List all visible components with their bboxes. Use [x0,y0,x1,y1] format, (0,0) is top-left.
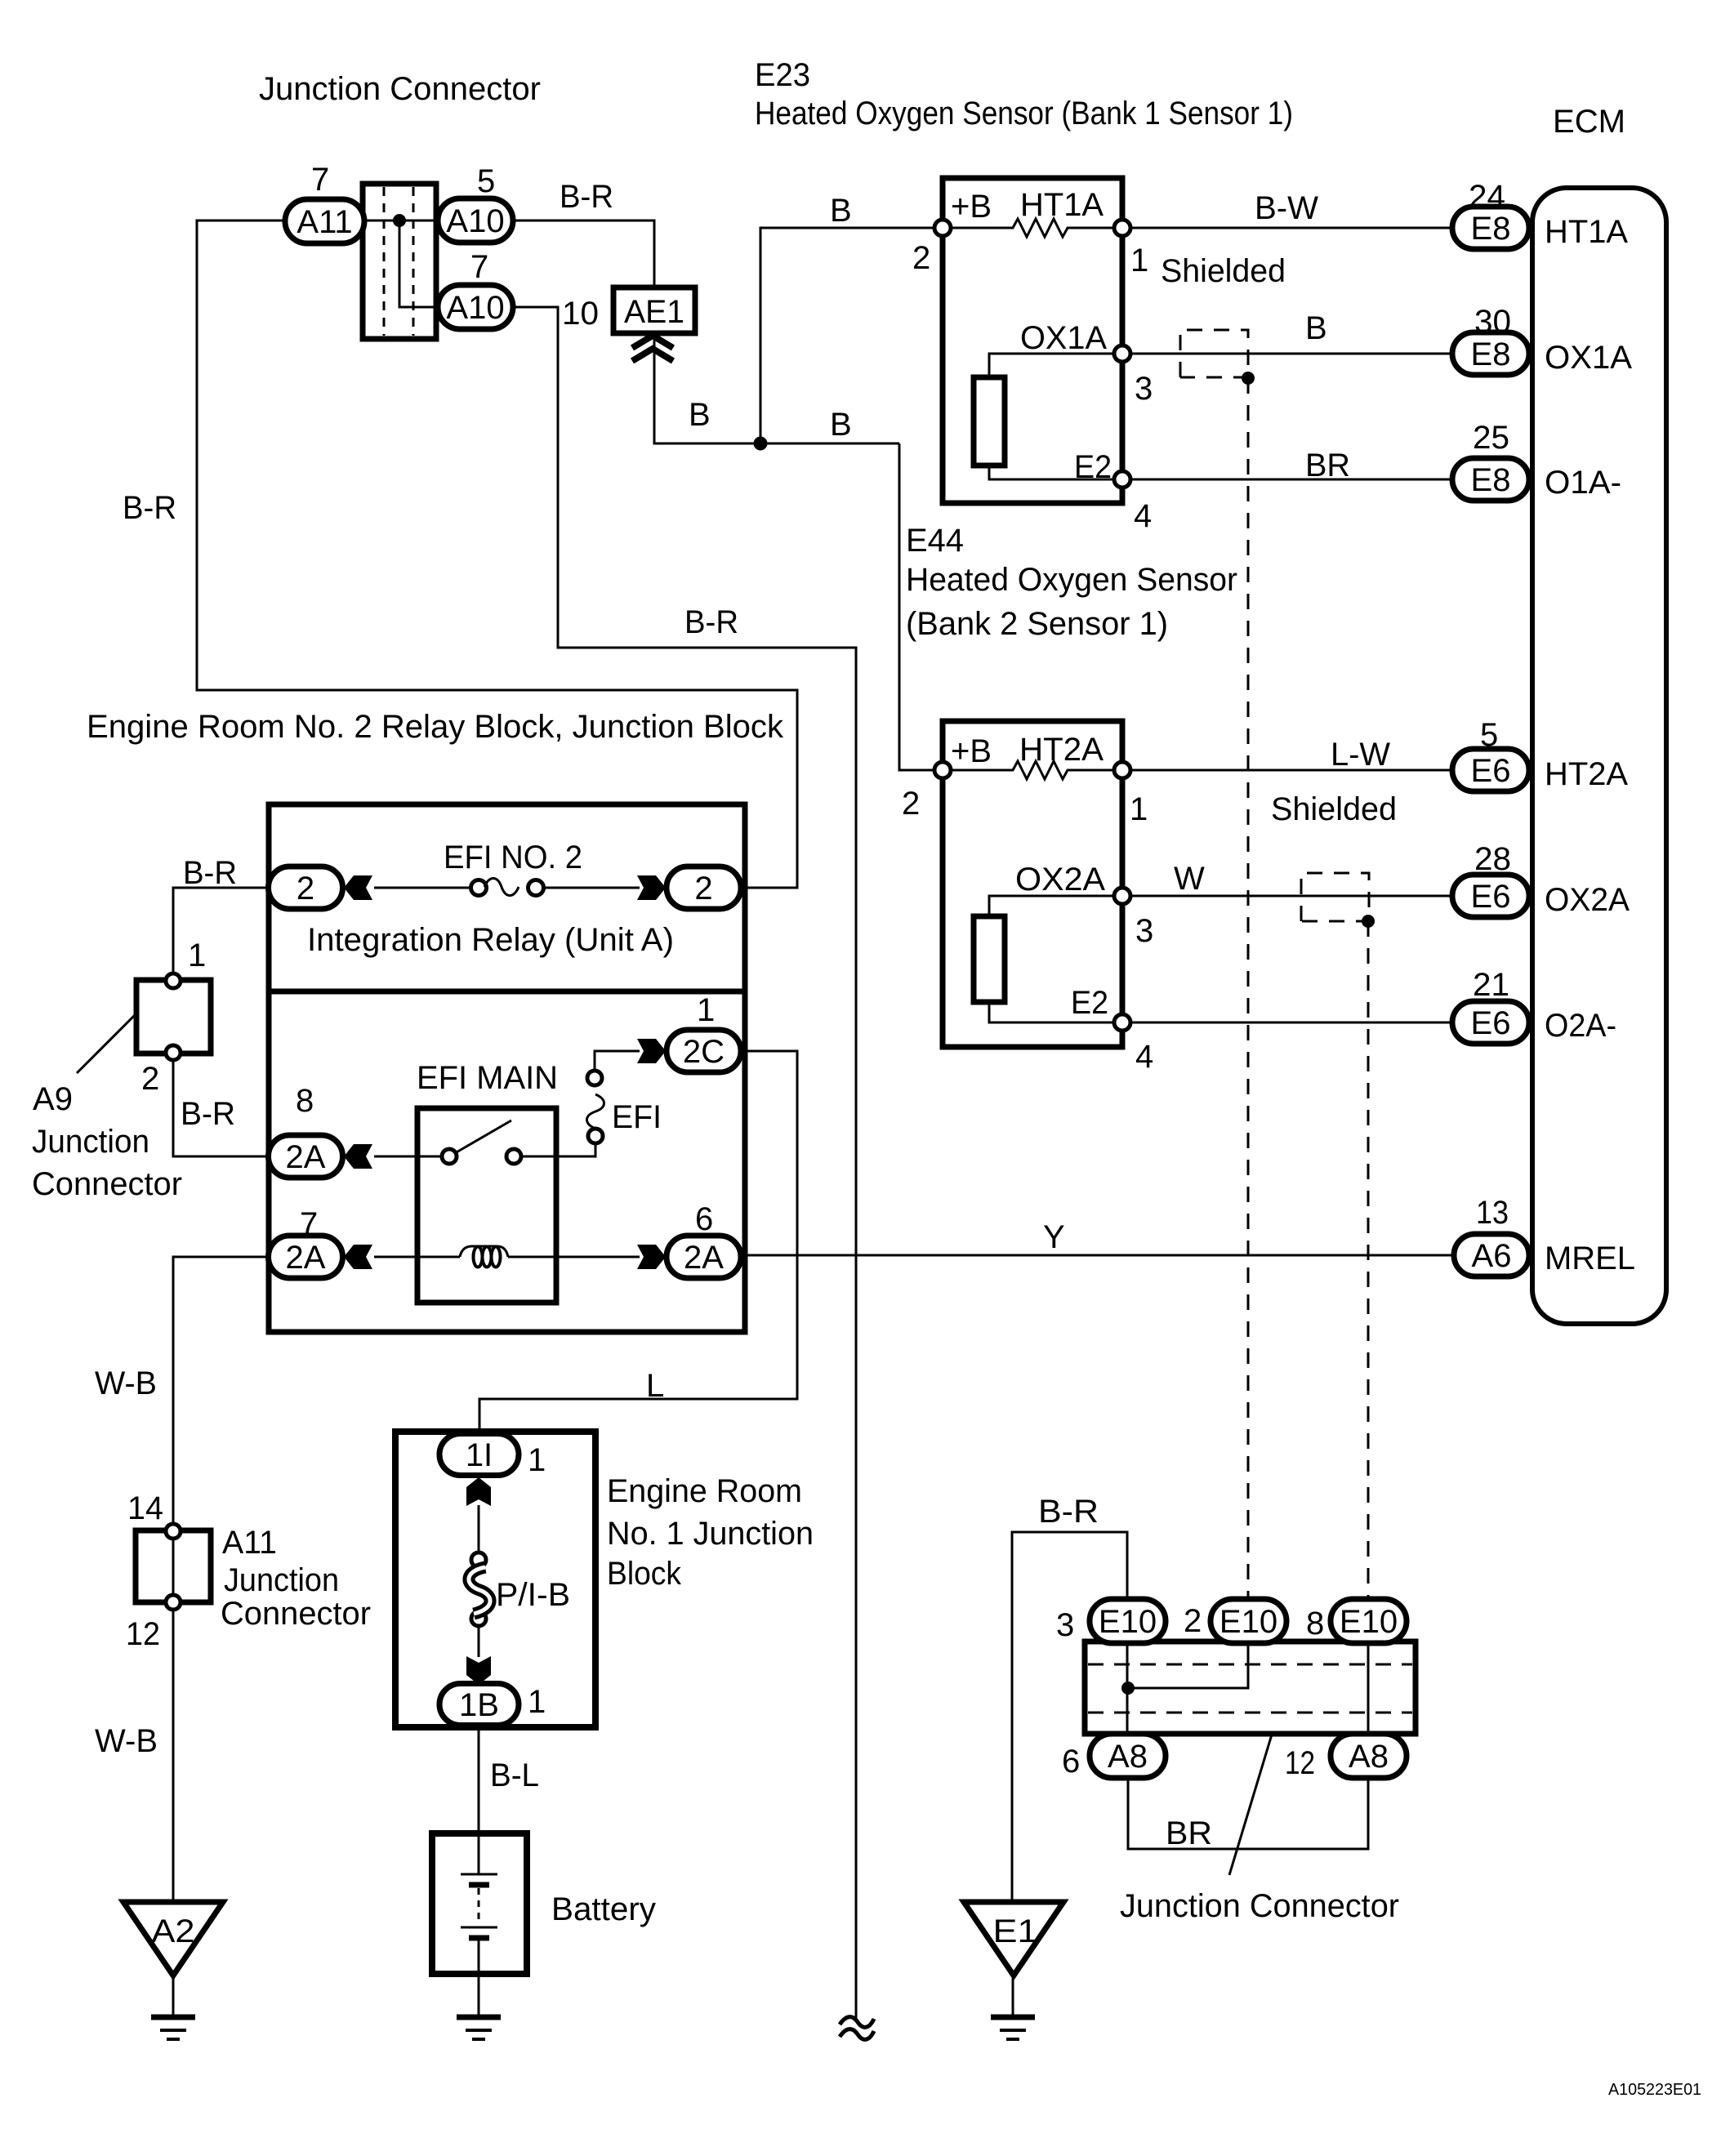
wire E10-8 to A8-12 [1367,1643,1370,1734]
svg-text:Y: Y [1043,1219,1065,1255]
svg-text:E44: E44 [906,523,964,559]
svg-text:OX2A: OX2A [1545,882,1630,918]
node dot shield bank1 [1242,372,1255,385]
ground symbol A2 [151,2015,195,2020]
svg-text:E8: E8 [1471,462,1511,498]
svg-text:EFI: EFI [612,1099,662,1135]
HOS bank2 sensor box E44 [943,721,1122,1047]
wire W OX2A row [1122,895,1456,898]
terminal A8 pin12 [1331,1734,1407,1778]
terminal E10 pin2 [1211,1599,1286,1643]
svg-text:EFI MAIN: EFI MAIN [417,1060,558,1096]
wire B down to HOS bank2 +B [899,443,943,770]
svg-text:Integration Relay (Unit A): Integration Relay (Unit A) [307,922,674,958]
arrow into relay 2 right [637,875,666,900]
svg-text:Heated Oxygen Sensor (Bank 1 S: Heated Oxygen Sensor (Bank 1 Sensor 1) [755,96,1293,131]
wire EFI fuse to 2C [595,1051,640,1071]
A9 pointer line [77,1015,135,1073]
svg-text:Engine Room No. 2 Relay Block,: Engine Room No. 2 Relay Block, Junction … [87,709,784,745]
svg-text:1: 1 [1130,791,1148,827]
svg-text:B-R: B-R [560,179,613,215]
terminal 2A pin7 [269,1236,343,1278]
svg-text:3: 3 [1135,371,1153,407]
terminal E6 21 O2A- [1452,1001,1529,1044]
wire B OX1A row [1122,353,1456,355]
svg-text:A10: A10 [446,203,504,239]
AE1 noise filter box [613,287,695,333]
terminal 2 right [667,866,741,909]
terminal 1B [439,1684,519,1726]
svg-text:E2: E2 [1074,449,1112,485]
pin 3 bank1 [1114,345,1130,362]
battery plates [478,1833,480,1873]
pin 1 bank1 [1114,220,1130,236]
arrow into 2A pin 6 [637,1245,666,1269]
wire B-W HT1A row [1122,227,1456,229]
wire B from AE1 shield to junction node [654,333,899,443]
wire B-R from junction connector A11 pin 7 left loop [197,220,797,888]
relay switch [442,1149,457,1164]
svg-text:A6: A6 [1472,1238,1512,1274]
fuse EFI vertical [587,1071,602,1085]
svg-text:2: 2 [902,786,920,822]
svg-text:AE1: AE1 [624,294,684,330]
svg-text:E23: E23 [755,57,810,93]
svg-text:5: 5 [1480,717,1498,753]
wire inside junction block 1I to P/I-B [478,1505,480,1552]
resistor HT1A bank1 [950,219,1115,237]
pin 2 bank1 [934,220,951,236]
svg-text:MREL: MREL [1545,1241,1635,1276]
svg-text:6: 6 [695,1201,713,1237]
node dot B wire [754,437,768,451]
svg-text:L: L [646,1368,664,1404]
svg-text:E8: E8 [1471,336,1511,372]
ground E1 triangle [964,1902,1063,1976]
svg-text:(Bank 2 Sensor 1): (Bank 2 Sensor 1) [906,606,1168,642]
svg-text:25: 25 [1473,420,1509,456]
pointer line junction connector [1229,1735,1272,1875]
svg-text:3: 3 [1135,913,1153,949]
svg-text:2A: 2A [684,1240,724,1276]
arrow into 2A pin 7 [344,1245,372,1269]
node dot bottom junction connector [1121,1682,1135,1695]
svg-text:13: 13 [1476,1195,1509,1231]
terminal 2A pin8 [269,1135,343,1178]
svg-text:A2: A2 [152,1913,195,1949]
svg-text:B-R: B-R [181,1096,235,1132]
wire BR O1A- row [1122,479,1456,481]
svg-text:Shielded: Shielded [1271,791,1397,827]
shield dashed box bank1 [1180,330,1248,377]
svg-text:P/I-B: P/I-B [496,1577,570,1613]
svg-text:E6: E6 [1471,879,1511,915]
svg-text:2: 2 [1184,1603,1202,1639]
svg-text:A105223E01: A105223E01 [1608,2081,1701,2099]
svg-text:Heated Oxygen Sensor: Heated Oxygen Sensor [906,562,1237,598]
svg-text:HT1A: HT1A [1545,214,1628,250]
terminal A10 pin5 [438,198,513,243]
svg-text:2C: 2C [683,1034,725,1070]
pin 1 bank2 [1114,762,1130,778]
terminal E10 pin8 [1331,1599,1407,1643]
wire B-R from A10 pin 5 to AE1 [513,220,654,287]
svg-text:W: W [1174,861,1205,897]
svg-text:Engine Room: Engine Room [607,1473,802,1509]
terminal A11 pin7 [285,199,364,243]
svg-text:12: 12 [126,1616,160,1652]
terminal 2 left [269,866,343,909]
A11 pin 14 [166,1524,181,1539]
wire B-R A9 pin 2 to relay 2A pin 8 [173,1053,269,1156]
terminal E8 30 OX1A [1452,332,1529,375]
wire BR O2A- row [1122,1022,1456,1024]
svg-text:BR: BR [1166,1815,1212,1851]
terminal E6 5 HT2A [1452,749,1529,791]
svg-text:+B: +B [951,189,992,225]
shield dashed line bank2 [1367,921,1370,1597]
ground symbol E1 [991,2015,1035,2020]
svg-text:EFI NO. 2: EFI NO. 2 [444,840,582,875]
HOS bank1 sensor box E23 [943,178,1122,503]
svg-text:L-W: L-W [1331,737,1390,773]
svg-text:B: B [1305,310,1327,346]
svg-text:8: 8 [1306,1606,1324,1641]
svg-text:28: 28 [1474,841,1511,877]
svg-text:O1A-: O1A- [1545,465,1621,501]
wire from junction dot to A10 pin 7 [399,220,438,307]
wire B up to HOS bank1 +B [760,228,943,443]
svg-text:B-W: B-W [1255,190,1318,226]
wire B-R from A10 pin 10 down long vertical [513,307,856,2020]
svg-text:2: 2 [141,1061,159,1097]
arrow into 2C [637,1039,666,1063]
pin 4 bank1 [1114,471,1130,488]
svg-text:OX1A: OX1A [1545,340,1632,376]
svg-text:BR: BR [1305,448,1350,483]
svg-text:3: 3 [1056,1607,1074,1643]
wire L from 2C to junction block 1I [479,1051,797,1435]
svg-text:2: 2 [912,240,930,276]
terminal E8 25 O1A- [1452,458,1529,501]
engine room no.1 junction block box [395,1432,595,1727]
svg-text:1: 1 [528,1442,546,1478]
svg-text:7: 7 [300,1206,318,1242]
wire relay switch row [374,1156,443,1158]
svg-text:OX1A: OX1A [1020,320,1107,356]
svg-text:A9: A9 [33,1081,73,1117]
svg-text:B-R: B-R [123,490,176,526]
svg-text:A11: A11 [222,1525,277,1561]
svg-text:8: 8 [296,1083,314,1119]
svg-text:Junction Connector: Junction Connector [1120,1888,1399,1924]
svg-text:E1: E1 [993,1913,1038,1949]
pin 4 bank2 [1114,1014,1130,1031]
svg-text:Junction Connector: Junction Connector [259,71,541,107]
svg-text:B-R: B-R [183,855,237,891]
terminal E8 24 HT1A [1452,207,1529,249]
svg-text:B: B [689,397,711,433]
wire from switch to EFI fuse [520,1143,595,1156]
relay coil [460,1246,508,1257]
pin 3 bank2 [1114,888,1130,904]
terminal A6 13 MREL [1454,1234,1529,1276]
svg-text:E10: E10 [1340,1604,1398,1640]
svg-text:21: 21 [1473,967,1509,1003]
terminal 1I [439,1434,519,1476]
svg-text:E6: E6 [1471,753,1511,789]
fusible link P/I-B [471,1552,486,1567]
svg-text:O2A-: O2A- [1545,1008,1616,1044]
break symbol on shield drain wire [840,2017,874,2028]
sensing element bank1 [989,354,1116,377]
ground symbol battery [457,2015,501,2020]
svg-text:1I: 1I [466,1437,493,1473]
svg-text:B-L: B-L [490,1757,539,1793]
terminal 2A pin6 [667,1236,741,1278]
A9 pin 2 [166,1045,181,1060]
AE1 shield chevrons [632,336,673,348]
svg-text:A11: A11 [297,204,352,240]
wire B-R E10 pin 3 to E1 ground [1012,1532,1127,1900]
wire E1 triangle to ground [1012,1978,1014,2015]
svg-text:Connector: Connector [32,1166,182,1202]
svg-text:1: 1 [188,938,206,973]
svg-text:E2: E2 [1071,985,1108,1021]
svg-text:12: 12 [1285,1745,1315,1781]
shield dashed line bank1 [1247,378,1250,1597]
svg-text:7: 7 [470,249,488,285]
svg-text:B-R: B-R [684,604,738,640]
ground A2 triangle [123,1902,223,1976]
pin 2 bank2 [934,762,951,778]
svg-text:1: 1 [697,992,715,1028]
wire EFI NO.2 row inside relay [374,887,472,889]
svg-text:HT2A: HT2A [1545,756,1628,792]
node dot junction connector top [393,214,406,227]
svg-text:4: 4 [1134,498,1152,534]
svg-text:2A: 2A [286,1139,326,1175]
wire B-R relay 2 to A9 junction connector [173,888,268,981]
svg-text:1: 1 [528,1684,546,1720]
svg-text:E6: E6 [1471,1005,1511,1041]
engine room no.2 relay block box [269,804,745,1332]
svg-text:A8: A8 [1349,1739,1389,1775]
svg-text:HT2A: HT2A [1019,732,1104,768]
svg-text:ECM: ECM [1553,104,1625,140]
svg-text:A10: A10 [446,290,504,326]
svg-text:7: 7 [311,162,329,198]
wire battery to ground [478,1974,480,2015]
svg-text:2A: 2A [286,1240,326,1276]
wire relay coil row [374,1256,460,1258]
wire P/I-B to 1B [478,1626,480,1657]
ECM box [1532,188,1666,1324]
svg-text:E10: E10 [1099,1604,1157,1640]
svg-text:1B: 1B [459,1687,499,1723]
fuse EFI NO.2 [471,880,487,896]
svg-text:Junction: Junction [32,1124,149,1160]
terminal A10 pin10 [438,285,513,329]
svg-text:E10: E10 [1219,1604,1277,1640]
wire L-W HT2A row [1122,769,1456,772]
svg-text:OX2A: OX2A [1015,862,1105,898]
svg-text:+B: +B [951,733,992,769]
svg-text:B: B [830,407,852,443]
svg-text:2: 2 [297,871,314,906]
wire W-B relay 2A pin 7 to A2 ground [173,1257,269,1900]
arrow into 2A pin 8 [344,1144,372,1169]
junction connector box (top) [363,184,436,339]
svg-text:W-B: W-B [95,1365,157,1401]
svg-text:4: 4 [1135,1039,1153,1075]
shield dashed box bank2 [1301,873,1369,921]
svg-text:A8: A8 [1108,1739,1148,1775]
resistor HT2A bank2 [950,761,1115,779]
wire A2 triangle to ground [172,1978,175,2015]
A11 pin 12 [166,1595,181,1610]
svg-text:6: 6 [1062,1744,1080,1780]
junction connector box (bottom right) [1085,1641,1416,1734]
svg-text:Block: Block [607,1556,682,1592]
A11 junction connector box (lower) [136,1530,211,1602]
svg-text:Shielded: Shielded [1161,253,1286,289]
wire Y MREL row [741,1254,1456,1257]
svg-text:14: 14 [127,1490,163,1526]
svg-text:5: 5 [477,163,495,199]
EFI MAIN relay inner box [417,1108,556,1303]
wire branch to E10 pin 2 [1128,1643,1248,1688]
svg-text:2: 2 [694,871,712,906]
wire E10-3 to A8-6 through junction connector [1126,1643,1129,1734]
svg-text:Battery: Battery [551,1891,656,1927]
terminal E6 28 OX2A [1452,875,1529,917]
svg-text:HT1A: HT1A [1020,187,1104,223]
svg-text:No. 1 Junction: No. 1 Junction [607,1516,814,1552]
svg-text:10: 10 [562,296,599,332]
svg-text:W-B: W-B [95,1723,158,1759]
svg-text:B: B [830,193,852,229]
A9 pin 1 [166,973,181,988]
wire B-L 1B to battery [478,1726,480,1833]
svg-text:Junction: Junction [224,1562,339,1598]
arrow down into 1B [466,1656,491,1685]
A9 junction connector box [136,980,211,1053]
sensing element bank2 [989,896,1116,916]
svg-text:E8: E8 [1471,211,1511,247]
arrow up into 1I [466,1477,491,1506]
wire BR loop A8-6 to A8-12 [1128,1778,1368,1849]
wire through junction connector A11 to A10 [364,220,438,222]
svg-text:1: 1 [1130,243,1148,278]
terminal 2C [667,1030,741,1072]
terminal A8 pin6 [1090,1734,1166,1778]
node dot shield bank2 [1362,915,1375,928]
svg-text:B-R: B-R [1038,1494,1099,1530]
terminal E10 pin3 [1090,1599,1166,1643]
arrow into relay 2 left [344,875,372,900]
svg-text:Connector: Connector [221,1596,371,1632]
svg-text:30: 30 [1474,304,1511,340]
battery box [432,1833,527,1974]
relay block divider [269,989,745,995]
svg-text:24: 24 [1469,179,1505,215]
